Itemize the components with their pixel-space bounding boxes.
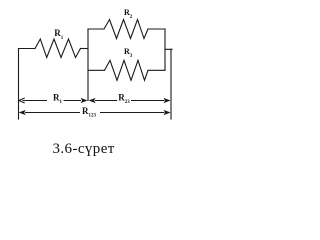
wire (148, 28, 165, 30)
wire (88, 28, 104, 30)
svg-text:R1: R1 (54, 28, 64, 41)
wire (19, 48, 36, 50)
svg-text:R3: R3 (124, 47, 133, 59)
svg-text:R123: R123 (82, 106, 97, 119)
wire (88, 69, 105, 71)
svg-text:R1: R1 (53, 92, 63, 105)
arrowhead right R23 (164, 98, 171, 103)
wire (148, 69, 165, 71)
arrowhead left R123 (19, 110, 26, 115)
svg-text:3.6-сүрет: 3.6-сүрет (53, 141, 115, 157)
arrowhead right R123 (164, 110, 171, 115)
node B (164, 29, 166, 70)
resistor R2 (104, 20, 148, 39)
arrowhead open left (19, 98, 25, 103)
wire (18, 49, 20, 120)
dimension line R123 right (100, 112, 165, 114)
node A (87, 29, 89, 101)
wire (170, 49, 172, 119)
dimension line R123 left (25, 112, 80, 114)
resistor R3 (105, 60, 149, 80)
wire (81, 48, 89, 50)
dimension line R23 right (131, 100, 165, 102)
svg-text:R23: R23 (118, 92, 130, 105)
dimension line R1 right (64, 100, 82, 102)
arrowhead right at node A (81, 98, 88, 103)
arrowhead left at node A (89, 98, 96, 103)
dimension line R1 left (23, 100, 48, 102)
svg-text:R2: R2 (124, 8, 133, 20)
wire (165, 48, 172, 50)
dimension line R23 left (95, 100, 117, 102)
resistor R1 (35, 39, 81, 58)
